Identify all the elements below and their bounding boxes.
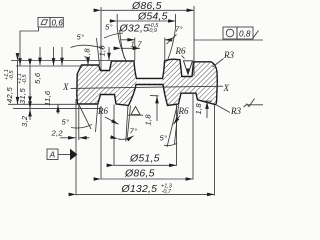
ext line x=194 (right Ø86,5) bbox=[193, 6, 195, 76]
svg-text:5°: 5° bbox=[105, 23, 113, 32]
svg-text:5°: 5° bbox=[62, 118, 70, 127]
web band left unhatched bbox=[137, 79, 163, 83]
svg-text:Ø32,5: Ø32,5 bbox=[119, 23, 150, 35]
svg-text:-0,5: -0,5 bbox=[9, 70, 15, 80]
triangle symbol bottom-center bbox=[131, 107, 140, 115]
dim 11,6 lower arrow bbox=[57, 105, 59, 114]
R3 bottom-right leader and label bbox=[216, 105, 230, 113]
svg-text:-0,5: -0,5 bbox=[22, 74, 28, 84]
left reference line L2 y=66 bbox=[16, 65, 82, 67]
svg-text:-0,9: -0,9 bbox=[148, 28, 157, 34]
svg-text:R6: R6 bbox=[97, 106, 108, 116]
groove wall extension bbox=[96, 105, 98, 133]
bottom 7° leaders bbox=[126, 106, 128, 142]
left reference line L1 y=60.5 bbox=[11, 60, 112, 62]
datum A frame bbox=[47, 149, 78, 161]
svg-text:2,2: 2,2 bbox=[51, 129, 64, 138]
left reference line L5 y=108.6 bbox=[13, 108, 100, 110]
dim 3,2 bbox=[29, 109, 31, 120]
svg-text:1,8: 1,8 bbox=[83, 48, 92, 60]
top dim line Ø86,5 bbox=[101, 9, 194, 11]
dim 1,8 (d) bottom-right bbox=[203, 100, 212, 102]
svg-text:Ø51,5: Ø51,5 bbox=[129, 153, 160, 165]
svg-text:Ø54,5: Ø54,5 bbox=[137, 11, 168, 23]
ext line slanted right bbox=[168, 14, 176, 61]
dim 42,5 vertical bbox=[17, 61, 19, 105]
svg-text:0,6: 0,6 bbox=[52, 18, 64, 27]
ext line slanted left (Ø54,5 / Ø32,5) bbox=[117, 14, 126, 61]
svg-text:5°: 5° bbox=[160, 134, 168, 143]
left reference line L4 y=104.3 bbox=[8, 103, 78, 105]
dim 31,5 vertical bbox=[29, 66, 31, 109]
svg-text:R6: R6 bbox=[175, 46, 186, 56]
svg-text:1,8: 1,8 bbox=[98, 45, 107, 57]
dim 1,8 (c) bottom-center bbox=[150, 95, 159, 97]
svg-text:R3: R3 bbox=[230, 106, 241, 116]
dim 5,6 bbox=[39, 47, 41, 65]
svg-text:1,8: 1,8 bbox=[194, 103, 203, 115]
bottom ext line x=76 (Ø132,5 left) bbox=[75, 99, 77, 196]
flatness frame 0,6 bbox=[20, 17, 63, 65]
svg-text:0,8: 0,8 bbox=[239, 29, 251, 38]
dim 1,7 bbox=[121, 47, 140, 49]
svg-text:R3: R3 bbox=[223, 50, 234, 60]
triangle symbol in right recess bbox=[184, 61, 193, 75]
part body (forging cross-section, hatched) bbox=[77, 59, 218, 105]
svg-text:1,8: 1,8 bbox=[144, 114, 153, 126]
bottom ext line x=193 (Ø86,5 right) bbox=[192, 94, 194, 180]
svg-text:7°: 7° bbox=[175, 25, 183, 34]
svg-text:1,7: 1,7 bbox=[131, 40, 143, 49]
svg-text:A: A bbox=[49, 151, 56, 160]
ext line slanted left second bbox=[120, 30, 125, 59]
bottom ext line x=214.5 (Ø132,5 right) bbox=[214, 105, 216, 196]
bottom ext line x=114 (Ø51,5 left) bbox=[113, 105, 115, 166]
bottom dim Ø51,5 bbox=[114, 164, 177, 166]
circularity frame 0,8 bbox=[223, 27, 259, 39]
parting line X-X bbox=[71, 86, 223, 88]
bottom dim Ø132,5 bbox=[76, 193, 215, 195]
svg-text:X: X bbox=[62, 82, 69, 92]
svg-text:5,6: 5,6 bbox=[33, 72, 42, 84]
svg-text:5°: 5° bbox=[77, 33, 85, 42]
dim 11,6 bbox=[53, 47, 55, 66]
ext line x=101 top (Ø86,5) bbox=[100, 7, 102, 70]
bottom dim Ø86,5 bbox=[101, 178, 193, 180]
svg-text:X: X bbox=[223, 83, 230, 93]
top dim line Ø54,5 bbox=[117, 20, 175, 22]
leader line to circularity frame bbox=[194, 39, 263, 41]
svg-text:R6: R6 bbox=[178, 106, 189, 116]
svg-text:3,2: 3,2 bbox=[20, 115, 29, 127]
svg-text:Ø86,5: Ø86,5 bbox=[124, 168, 155, 180]
bottom ext line x=176.5 (Ø51,5 right) bbox=[176, 105, 178, 166]
bottom ext line x=101 (Ø86,5 left) bbox=[100, 106, 102, 180]
svg-text:11,6: 11,6 bbox=[43, 90, 52, 106]
svg-text:Ø132,5: Ø132,5 bbox=[121, 183, 158, 195]
top dim line Ø32,5 bbox=[121, 39, 135, 41]
svg-text:7°: 7° bbox=[130, 127, 138, 136]
svg-text:-0,7: -0,7 bbox=[162, 189, 172, 195]
svg-text:42,5: 42,5 bbox=[5, 87, 14, 103]
svg-text:31,5: 31,5 bbox=[18, 88, 27, 104]
